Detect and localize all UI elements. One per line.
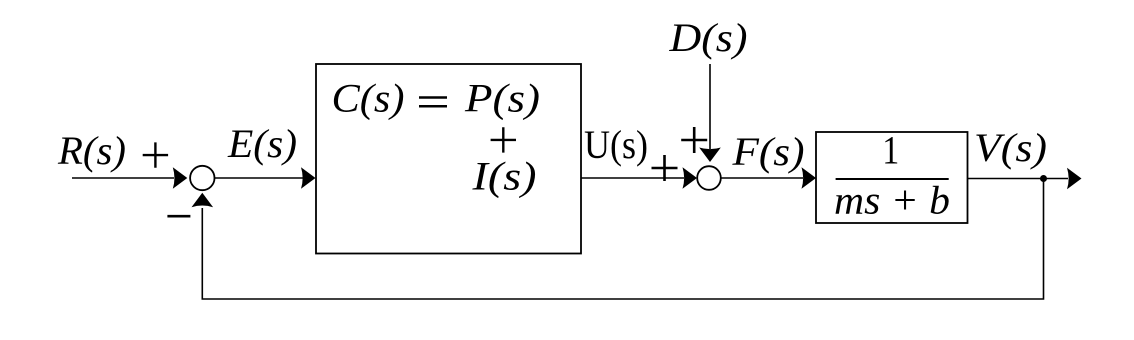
svg-text:P(s): P(s) xyxy=(464,76,540,121)
wire D vertical xyxy=(709,64,711,149)
wire feedback xyxy=(202,179,1043,300)
plus sign at first summing junction input xyxy=(143,142,168,167)
svg-text:I(s): I(s) xyxy=(471,154,536,199)
arrowhead into plant block xyxy=(802,167,817,189)
fraction bar xyxy=(836,178,949,180)
svg-text:1: 1 xyxy=(882,128,899,173)
plus sign inside controller xyxy=(491,127,516,152)
svg-text:C(s): C(s) xyxy=(332,76,405,121)
equals sign xyxy=(419,98,447,107)
wire input xyxy=(72,177,174,179)
plus sign at disturbance input xyxy=(681,127,707,153)
arrowhead output xyxy=(1067,168,1082,190)
arrowhead into summing junction 2 xyxy=(683,167,698,189)
wire output xyxy=(968,178,1069,180)
svg-text:ms + b: ms + b xyxy=(834,178,950,223)
controller block C(s) xyxy=(316,64,581,254)
svg-text:V(s): V(s) xyxy=(974,125,1047,170)
svg-text:D(s): D(s) xyxy=(668,15,747,60)
arrowhead up into summing junction 1 xyxy=(192,193,214,208)
plant block 1/(ms+b) xyxy=(816,132,968,223)
svg-text:U(s): U(s) xyxy=(584,122,648,167)
wire F xyxy=(721,177,803,179)
node dot on output xyxy=(1040,175,1047,182)
plus sign subscript after U(s) xyxy=(652,155,678,181)
svg-text:F(s): F(s) xyxy=(731,129,804,174)
arrowhead down into summing junction 2 xyxy=(699,148,721,163)
arrowhead into summing junction 1 xyxy=(173,167,188,189)
arrowhead into controller block xyxy=(301,167,316,189)
svg-text:R(s): R(s) xyxy=(57,128,126,173)
wire U xyxy=(581,177,684,179)
wire E xyxy=(215,177,304,179)
minus sign xyxy=(167,215,190,218)
summing junction 1 xyxy=(190,166,214,190)
svg-text:E(s): E(s) xyxy=(227,121,297,166)
summing junction 2 xyxy=(697,166,721,190)
